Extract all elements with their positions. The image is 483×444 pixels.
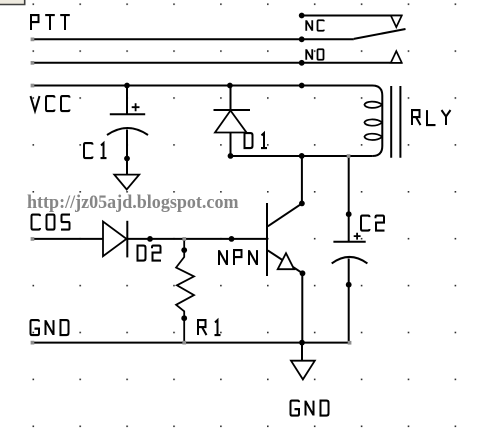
wire PTT rail — [31, 38, 354, 40]
relay bottom edge — [231, 155, 373, 157]
label NPN — [219, 250, 257, 265]
label D2 — [138, 246, 162, 261]
wire switch blade — [354, 29, 406, 39]
label COS — [32, 215, 71, 230]
relay RLY coil loops — [364, 102, 382, 140]
wire COS / base rail — [31, 238, 267, 240]
diode D1 symbol — [214, 110, 251, 133]
wire C2 bottom vertical — [348, 259, 350, 343]
wire collector vertical — [301, 156, 303, 203]
relay right edge — [372, 96, 382, 157]
label PTT — [31, 15, 70, 30]
gray endpoint squares — [31, 38, 352, 345]
wire emitter vertical — [301, 273, 303, 342]
label D1 — [245, 133, 268, 148]
diode D2 symbol — [103, 221, 127, 258]
schematic text labels (stroke font) — [31, 15, 451, 415]
wire NC contact — [302, 15, 402, 17]
ground symbol under C1 — [114, 175, 139, 190]
wire GND stub — [301, 343, 303, 361]
ground symbol bottom — [291, 361, 315, 380]
wire VCC rail into relay top — [31, 86, 382, 96]
label RLY — [412, 110, 451, 125]
wire C1 bottom vertical — [126, 130, 128, 175]
label R1 — [198, 320, 221, 335]
label C1 — [84, 143, 107, 158]
wire GND rail — [31, 342, 349, 344]
label NO — [306, 49, 323, 60]
label NC — [306, 20, 324, 31]
svg-text:http://jz05ajd.blogspot.com: http://jz05ajd.blogspot.com — [27, 192, 239, 213]
NC contact triangle — [391, 16, 402, 28]
label VCC — [31, 96, 70, 111]
capacitor C1 symbol — [107, 103, 148, 135]
resistor R1 zigzag — [176, 239, 194, 343]
capacitor C2 symbol — [332, 233, 368, 264]
top-left window fragment — [0, 0, 25, 5]
wire C1 top vertical — [126, 86, 128, 115]
wire C2 top vertical — [348, 156, 350, 241]
relay core lines — [391, 86, 400, 158]
wire D1 vertical — [230, 86, 232, 157]
transistor NPN Q1 — [267, 203, 303, 276]
label GND bottom — [291, 401, 329, 416]
wire NO rail — [31, 62, 402, 64]
label GND left — [31, 320, 69, 335]
NO contact triangle — [391, 51, 402, 63]
label C2 — [361, 216, 385, 231]
